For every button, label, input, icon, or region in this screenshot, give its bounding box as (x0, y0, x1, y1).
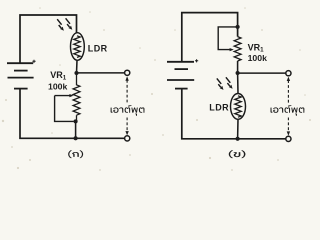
wire (238, 72, 286, 74)
wire (75, 121, 77, 138)
output span arrows (right) (287, 80, 289, 132)
wire (77, 72, 125, 74)
node (LDR-VR1 junction, left) (74, 71, 78, 75)
LDR (left) envelope (71, 33, 85, 61)
wire (182, 89, 286, 139)
node (bottom rail junction, left) (74, 136, 78, 140)
LDR (right) envelope (231, 94, 246, 120)
light arrow 1 (left LDR) (57, 19, 64, 31)
LDR (right) resistor zigzag (235, 96, 241, 117)
svg-text:LDR: LDR (209, 103, 229, 113)
wire (182, 13, 238, 62)
node (bottom rail junction, right) (236, 137, 240, 141)
svg-text:100k: 100k (48, 81, 67, 91)
wire (237, 61, 239, 73)
node (VR1-LDR junction, right) (236, 71, 240, 75)
wire (237, 119, 239, 139)
wire (20, 15, 77, 63)
VR1 wiper arrow (left) (55, 96, 74, 122)
output span arrows (left) (126, 80, 128, 132)
label (ko kai) caption left (68, 150, 83, 158)
svg-text:VR1: VR1 (50, 70, 67, 81)
node (wiper junction, left) (74, 119, 78, 123)
battery B1 left (7, 60, 36, 89)
terminal (right, top output) (286, 71, 291, 76)
wire (20, 89, 124, 139)
LDR (left) resistor zigzag (74, 36, 80, 58)
terminal (left, bottom output) (125, 136, 130, 141)
node (VR1 top junction, right) (236, 25, 240, 29)
svg-text:100k: 100k (248, 53, 267, 63)
scan noise (2, 7, 311, 171)
VR1 wiper arrow (right) (218, 27, 237, 50)
terminal (right, bottom output) (286, 136, 291, 141)
label output (Thai, right) (271, 105, 305, 115)
battery B1 right (167, 59, 198, 88)
light arrow 2 (left LDR) (66, 18, 73, 30)
wire (237, 73, 239, 94)
light arrow 1 (right LDR) (217, 78, 224, 90)
label output (Thai, left) (111, 105, 145, 115)
terminal (left, top output) (125, 70, 130, 75)
light arrow 2 (right LDR) (226, 77, 233, 89)
svg-text:LDR: LDR (88, 44, 108, 54)
potentiometer VR1 (left) zigzag (73, 73, 80, 121)
label (kho khai) caption right (229, 150, 246, 158)
potentiometer VR1 (right) zigzag (234, 37, 241, 61)
wire (76, 60, 79, 73)
